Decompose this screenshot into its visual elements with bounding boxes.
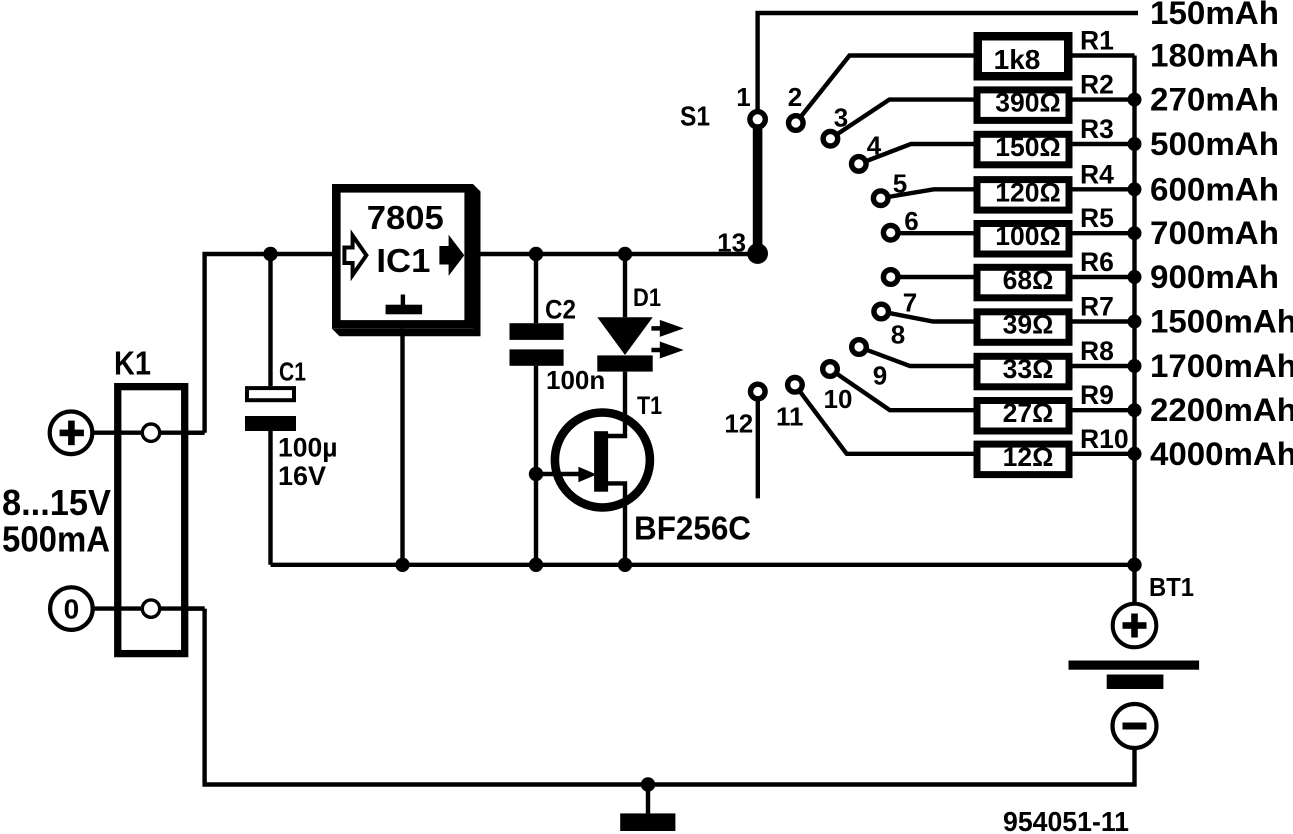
wire R1 right lead xyxy=(1073,53,1135,57)
transistor T1 JFET xyxy=(555,413,650,508)
svg-text:8: 8 xyxy=(891,320,905,350)
svg-text:4: 4 xyxy=(867,131,882,161)
wire S1 pin 4 to R3 xyxy=(859,144,974,164)
svg-text:R10: R10 xyxy=(1080,424,1129,454)
diode D1 LED xyxy=(597,317,683,371)
switch S1 wiper bar xyxy=(753,126,763,248)
svg-text:IC1: IC1 xyxy=(376,242,430,279)
K1 pin hole bottom xyxy=(142,600,159,617)
svg-text:3: 3 xyxy=(834,102,848,132)
capacitor C1 xyxy=(245,388,296,431)
svg-text:R4: R4 xyxy=(1080,159,1114,189)
S1 contact 9 xyxy=(852,340,867,355)
wire left vertical up to main rail and into IC1 xyxy=(205,254,332,433)
svg-text:16V: 16V xyxy=(278,461,326,491)
svg-text:150Ω: 150Ω xyxy=(995,132,1060,162)
wire R2 right lead xyxy=(1073,97,1135,101)
node IC1 ground on bottom rail xyxy=(395,558,409,572)
svg-text:954051-11: 954051-11 xyxy=(1003,806,1129,834)
wire C1 branch xyxy=(268,254,272,386)
svg-text:700mAh: 700mAh xyxy=(1150,215,1279,251)
node T1 source on bottom rail xyxy=(618,558,632,572)
IC1 input arrow xyxy=(344,236,366,275)
S1 contact 8 xyxy=(874,304,889,319)
wire IC1 output rail to S1 pin 13 xyxy=(473,252,758,256)
S1 contact 6 xyxy=(883,225,898,240)
wire C2 top branch xyxy=(534,254,538,323)
wire S1 pin 5 to R4 xyxy=(881,189,974,198)
svg-text:100µ: 100µ xyxy=(278,433,337,463)
S1 contact 11 xyxy=(788,378,803,393)
S1 contact 5 xyxy=(873,191,888,206)
svg-text:500mA: 500mA xyxy=(2,519,110,560)
S1 contact 12 xyxy=(751,384,766,399)
svg-text:7805: 7805 xyxy=(367,199,444,236)
wire R6 right lead xyxy=(1073,275,1135,279)
svg-text:R8: R8 xyxy=(1080,336,1114,366)
resistor R5 xyxy=(977,224,1069,255)
wire S1 pin 11 to R10 xyxy=(795,385,974,454)
wire K1 zero output to bottom corner xyxy=(93,606,205,610)
svg-text:R9: R9 xyxy=(1080,380,1114,410)
svg-text:D1: D1 xyxy=(633,284,661,312)
svg-text:7: 7 xyxy=(903,287,917,317)
node D1 tap on main rail xyxy=(618,247,632,261)
node R10 rail junction xyxy=(1128,447,1142,461)
svg-text:K1: K1 xyxy=(114,345,151,382)
svg-text:9: 9 xyxy=(873,360,887,390)
node bottom rail meets right rail xyxy=(1127,558,1141,572)
svg-text:1500mAh: 1500mAh xyxy=(1150,304,1293,340)
S1 contact 1 xyxy=(750,112,765,127)
wire through K1 bottom xyxy=(121,606,205,610)
svg-text:13: 13 xyxy=(717,228,746,258)
resistor R6 xyxy=(977,267,1069,298)
terminal zero xyxy=(50,587,93,630)
svg-text:R1: R1 xyxy=(1080,26,1114,56)
svg-text:1700mAh: 1700mAh xyxy=(1150,348,1293,384)
resistor R8 xyxy=(977,356,1069,387)
svg-text:S1: S1 xyxy=(680,101,710,132)
node R7 rail junction xyxy=(1128,315,1142,329)
battery BT1 xyxy=(1069,604,1200,748)
svg-text:C1: C1 xyxy=(279,357,306,387)
resistor R2 xyxy=(977,90,1069,121)
switch S1 pin 13 pivot xyxy=(747,243,768,264)
resistor R7 xyxy=(977,312,1069,343)
wire bottom rail xyxy=(271,563,1135,567)
wire R10 right lead xyxy=(1073,452,1135,456)
svg-text:120Ω: 120Ω xyxy=(995,177,1060,207)
IC1 ground tab xyxy=(401,295,405,306)
svg-text:2: 2 xyxy=(788,82,802,112)
wire S1 pin 1 up and top line to 150mAh xyxy=(758,13,1138,119)
wire S1 pin 9 to R8 xyxy=(859,347,974,366)
wire D1 anode branch xyxy=(623,254,627,317)
node C1 tap on main rail xyxy=(263,247,277,261)
svg-text:11: 11 xyxy=(776,402,804,432)
wire T1 source to bottom rail xyxy=(608,483,625,564)
wire R4 right lead xyxy=(1073,187,1135,191)
svg-text:0: 0 xyxy=(64,594,80,625)
wire C2 bottom to rail xyxy=(534,366,538,565)
svg-text:BF256C: BF256C xyxy=(634,510,751,547)
svg-text:R7: R7 xyxy=(1080,292,1114,322)
wire R5 right lead xyxy=(1073,231,1135,235)
svg-text:600mAh: 600mAh xyxy=(1150,171,1279,207)
wire D1 cathode to T1 drain xyxy=(608,372,625,436)
wire S1 pin 12 stub xyxy=(756,392,760,499)
svg-text:180mAh: 180mAh xyxy=(1150,38,1279,74)
svg-text:100n: 100n xyxy=(546,365,605,395)
svg-text:900mAh: 900mAh xyxy=(1150,259,1279,295)
wire R3 right lead xyxy=(1073,142,1135,146)
wire R7 right lead xyxy=(1073,319,1135,323)
node R4 rail junction xyxy=(1128,182,1142,196)
wire through K1 top xyxy=(121,431,205,435)
wire S1 pin 6 to R5 xyxy=(891,231,974,235)
node R8 rail junction xyxy=(1128,359,1142,373)
wire R9 right lead xyxy=(1073,408,1135,412)
node C2 on bottom rail xyxy=(529,558,543,572)
S1 contact 4 xyxy=(852,157,867,172)
svg-text:1: 1 xyxy=(736,82,750,112)
svg-text:R3: R3 xyxy=(1080,114,1114,144)
svg-text:150mAh: 150mAh xyxy=(1150,0,1279,31)
svg-text:5: 5 xyxy=(893,169,907,199)
resistor R3 xyxy=(977,134,1069,165)
wire S1 pin 10 to R9 xyxy=(830,369,974,410)
wire S1 pin 3 to R2 xyxy=(830,100,973,139)
S1 contact 10 xyxy=(823,362,838,377)
resistor R9 xyxy=(977,401,1069,432)
resistor R10 xyxy=(977,444,1069,475)
svg-text:C2: C2 xyxy=(545,295,576,325)
svg-text:2200mAh: 2200mAh xyxy=(1150,392,1293,428)
svg-text:12: 12 xyxy=(724,409,753,439)
ground xyxy=(620,813,675,831)
K1 pin hole top xyxy=(142,424,159,441)
svg-text:R2: R2 xyxy=(1080,70,1114,100)
wire R8 right lead xyxy=(1073,364,1135,368)
svg-text:6: 6 xyxy=(904,206,918,236)
wire gate tap xyxy=(536,472,580,476)
svg-text:8...15V: 8...15V xyxy=(2,482,111,523)
connector K1 xyxy=(118,387,205,654)
svg-text:12Ω: 12Ω xyxy=(1003,442,1054,472)
svg-text:27Ω: 27Ω xyxy=(1003,398,1054,428)
node R6 rail junction xyxy=(1128,270,1142,284)
resistor R4 xyxy=(977,180,1069,211)
node gate junction xyxy=(529,467,543,481)
S1 contact 7 xyxy=(883,270,898,285)
wire right rail down to BT1 xyxy=(1132,56,1136,648)
terminal plus xyxy=(50,412,93,455)
wire IC1 ground lead xyxy=(400,329,404,565)
svg-text:39Ω: 39Ω xyxy=(1003,310,1054,340)
svg-text:270mAh: 270mAh xyxy=(1150,82,1279,118)
svg-text:R6: R6 xyxy=(1080,247,1114,277)
capacitor C2 xyxy=(510,323,564,366)
svg-text:33Ω: 33Ω xyxy=(1003,354,1054,384)
node R3 rail junction xyxy=(1128,137,1142,151)
svg-text:T1: T1 xyxy=(637,392,662,420)
svg-text:1k8: 1k8 xyxy=(994,44,1041,75)
wire bottommost rail from K1 to BT1 minus xyxy=(205,609,1135,785)
wire C1 to bottom rail xyxy=(268,431,272,565)
svg-text:R5: R5 xyxy=(1080,203,1114,233)
wire S1 pin 2 to R1 xyxy=(796,56,974,124)
svg-text:68Ω: 68Ω xyxy=(1003,265,1054,295)
node R2 rail junction xyxy=(1128,93,1142,107)
node R9 rail junction xyxy=(1128,403,1142,417)
IC1 output arrow xyxy=(439,235,464,276)
svg-text:100Ω: 100Ω xyxy=(995,221,1060,251)
wire S1 pin 7 to R6 xyxy=(891,275,974,279)
svg-text:BT1: BT1 xyxy=(1149,572,1194,602)
node C2 tap on main rail xyxy=(529,247,543,261)
svg-text:4000mAh: 4000mAh xyxy=(1150,436,1293,472)
S1 contact 3 xyxy=(823,131,838,146)
S1 contact 2 xyxy=(789,116,804,131)
svg-text:500mAh: 500mAh xyxy=(1150,126,1279,162)
node ground tap xyxy=(641,777,655,791)
wire ground stub xyxy=(646,785,650,814)
node R5 rail junction xyxy=(1128,226,1142,240)
svg-text:390Ω: 390Ω xyxy=(995,88,1060,118)
wire S1 pin 8 to R7 xyxy=(881,312,973,322)
op-amp U? no: regulator IC1 7805 xyxy=(332,184,481,336)
wire K1 plus input to left rail xyxy=(93,431,205,435)
svg-text:10: 10 xyxy=(824,384,853,414)
resistor R1 xyxy=(978,36,1069,76)
